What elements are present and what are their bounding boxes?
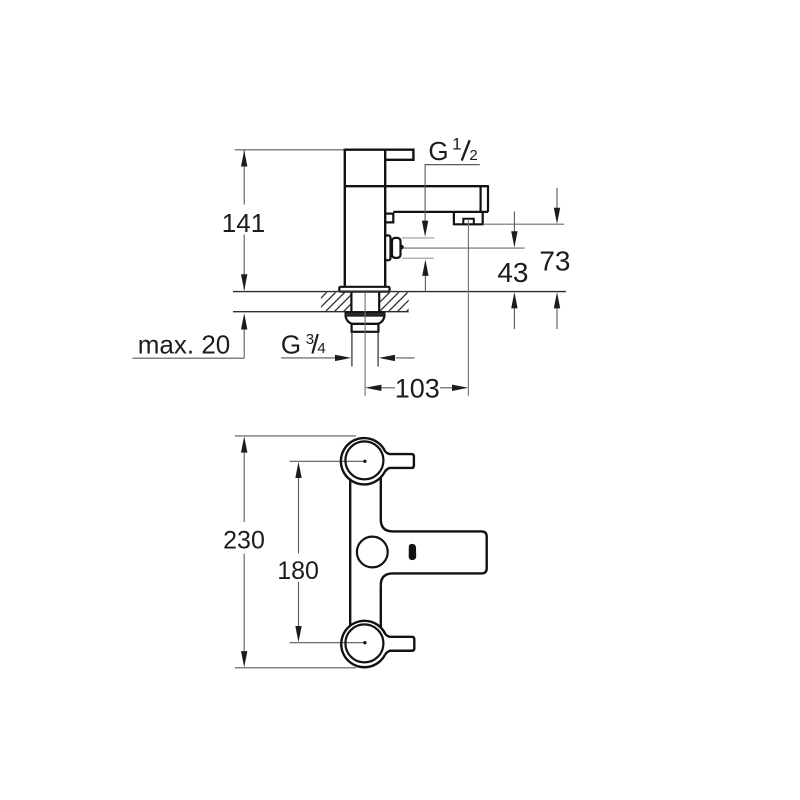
shower port flange [385,235,390,260]
180 ext top [290,460,365,462]
washer [345,312,385,316]
tap centerline [364,292,366,396]
svg-text:103: 103 [395,374,440,404]
svg-text:3: 3 [306,331,314,348]
bottom valve outer circle arc [341,621,385,667]
dim 180 [277,462,319,643]
ext line 141 top [235,149,345,151]
step under spout [385,214,393,223]
top lever [385,452,414,472]
dim 43 [497,212,528,330]
svg-text:G: G [281,329,301,359]
shower port tip [401,246,403,249]
base plate [339,287,389,292]
collar [352,324,379,332]
arm [381,520,487,586]
logo mark [409,544,417,560]
180 ext bottom [290,642,365,644]
body left edge [344,149,346,288]
G 1/2 leader arrows [422,165,429,292]
svg-text:4: 4 [317,340,325,357]
dim 103 [365,374,468,404]
shank through deck [351,292,379,312]
ext port bottom [402,257,434,259]
dim 230 [223,436,265,667]
outlet [454,212,483,224]
body right edge [384,150,386,288]
dim max. 20 [132,313,247,359]
230 ext top [235,435,356,437]
lever handle [345,150,414,160]
230 ext bottom [235,667,356,669]
svg-text:141: 141 [222,208,265,238]
top valve inner circle [345,441,383,479]
trunk [350,477,381,627]
label G 3/4 [281,329,326,359]
top valve outer circle arc [341,438,385,484]
joint line / spout top [345,185,488,187]
shower port cap [392,238,401,258]
dim G 3/4 arrows [281,355,415,361]
bottom valve inner circle [345,624,383,662]
dim 73 [539,188,570,329]
svg-text:G: G [428,136,448,166]
deck hatch [306,292,426,313]
top valve center dot [363,460,366,463]
deck bottom line [233,311,409,313]
svg-text:max. 20: max. 20 [138,329,231,359]
outlet centerline [467,219,469,396]
svg-text:43: 43 [497,257,528,288]
label G 1/2 [425,135,480,167]
dim 141 [222,150,265,290]
aerator notch [463,219,474,225]
spout right end [481,185,488,212]
ext port top [402,237,435,239]
svg-text:1: 1 [452,135,461,154]
deck top line [233,291,566,293]
tail pipe [352,332,378,367]
ext port center [403,247,525,249]
svg-text:180: 180 [277,557,319,585]
ext outlet bottom [483,223,565,225]
spout bottom [393,211,488,213]
middle circle [357,537,388,568]
bottom lever [385,635,414,655]
locknut [346,317,385,324]
svg-text:230: 230 [223,526,265,554]
locknut scallops [352,324,377,325]
svg-text:73: 73 [539,245,570,276]
svg-text:2: 2 [469,147,477,164]
bottom valve center dot [363,641,366,644]
